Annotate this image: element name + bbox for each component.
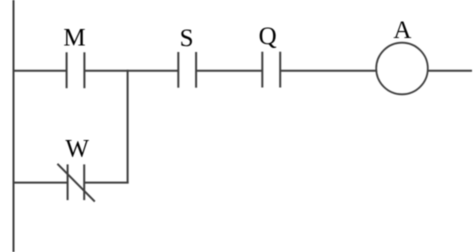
svg-text:M: M [63,24,85,51]
wire coil A to right [428,70,472,72]
wire rail to W [13,182,68,184]
contact W (normally closed) [57,164,94,202]
coil A circle [376,43,428,95]
contact S [178,52,196,88]
wire M to S [84,70,178,72]
svg-text:Q: Q [259,23,277,50]
left power rail [13,0,15,252]
wire Q to coil A [280,70,376,72]
wire rail to M [13,70,67,72]
svg-text:A: A [393,17,411,44]
wire W to riser [84,182,128,184]
svg-text:S: S [180,25,194,52]
svg-text:W: W [65,136,89,163]
branch riser junction [127,70,129,184]
contact Q [262,52,280,88]
contact M [67,52,85,88]
wire S to Q [196,70,262,72]
